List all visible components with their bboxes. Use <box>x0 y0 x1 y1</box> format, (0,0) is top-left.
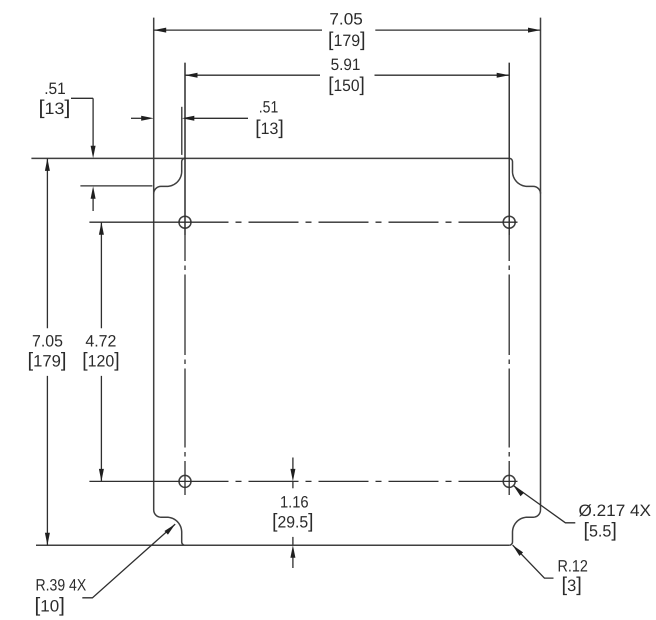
svg-text:5.91: 5.91 <box>331 56 361 74</box>
corner relief bottom-left <box>154 510 185 545</box>
svg-text:Ø.217 4X: Ø.217 4X <box>579 502 652 520</box>
svg-text:[10]: [10] <box>35 595 65 617</box>
dimension .51 [13] corner relief depth <box>39 80 153 211</box>
center line top hole row <box>89 221 517 223</box>
plate top edge <box>31 157 509 159</box>
dimension 7.05 [179] left height <box>28 158 67 545</box>
svg-text:1.16: 1.16 <box>280 494 309 512</box>
svg-text:[3]: [3] <box>562 574 582 596</box>
leader hole diameter &#216;.217 4X [5.5] <box>514 486 652 542</box>
plate left edge <box>153 18 155 510</box>
plate right edge <box>540 18 542 510</box>
svg-text:R.12: R.12 <box>558 558 588 576</box>
svg-text:[5.5]: [5.5] <box>584 519 617 541</box>
dimension 1.16 [29.5] bottom hole offset <box>272 458 313 569</box>
dimension .51 [13] corner relief width <box>131 98 284 155</box>
center line left hole column <box>184 63 186 495</box>
corner relief bottom-right <box>509 510 540 545</box>
leader corner relief R.39 4X [10] <box>35 524 176 616</box>
corner relief top-right <box>509 158 540 193</box>
svg-text:[13]: [13] <box>39 97 71 119</box>
center line bottom hole row <box>89 480 517 482</box>
svg-text:R.39 4X: R.39 4X <box>36 577 87 595</box>
svg-text:4.72: 4.72 <box>85 333 116 351</box>
svg-text:.51: .51 <box>44 80 66 98</box>
svg-text:7.05: 7.05 <box>329 11 362 29</box>
svg-text:[29.5]: [29.5] <box>272 510 313 532</box>
svg-text:[179]: [179] <box>328 29 366 51</box>
svg-text:7.05: 7.05 <box>32 333 63 351</box>
svg-text:[150]: [150] <box>328 74 365 96</box>
hole top-left <box>179 216 191 228</box>
dimension 5.91 [150] hole spacing horizontal <box>185 56 509 235</box>
svg-text:.51: .51 <box>259 98 279 116</box>
dimension 7.05 [179] top width <box>154 11 541 51</box>
corner relief top-left <box>154 158 185 193</box>
hole top-right <box>503 216 515 228</box>
hole bottom-left <box>179 475 191 487</box>
leader corner fillet R.12 [3] <box>513 545 588 596</box>
dimension 4.72 [120] hole spacing vertical <box>82 222 119 481</box>
svg-text:[120]: [120] <box>82 350 119 372</box>
svg-text:[13]: [13] <box>255 117 284 139</box>
hole bottom-right <box>503 475 515 487</box>
plate bottom edge <box>36 544 509 546</box>
svg-text:[179]: [179] <box>28 350 67 372</box>
center line right hole column <box>508 63 510 495</box>
